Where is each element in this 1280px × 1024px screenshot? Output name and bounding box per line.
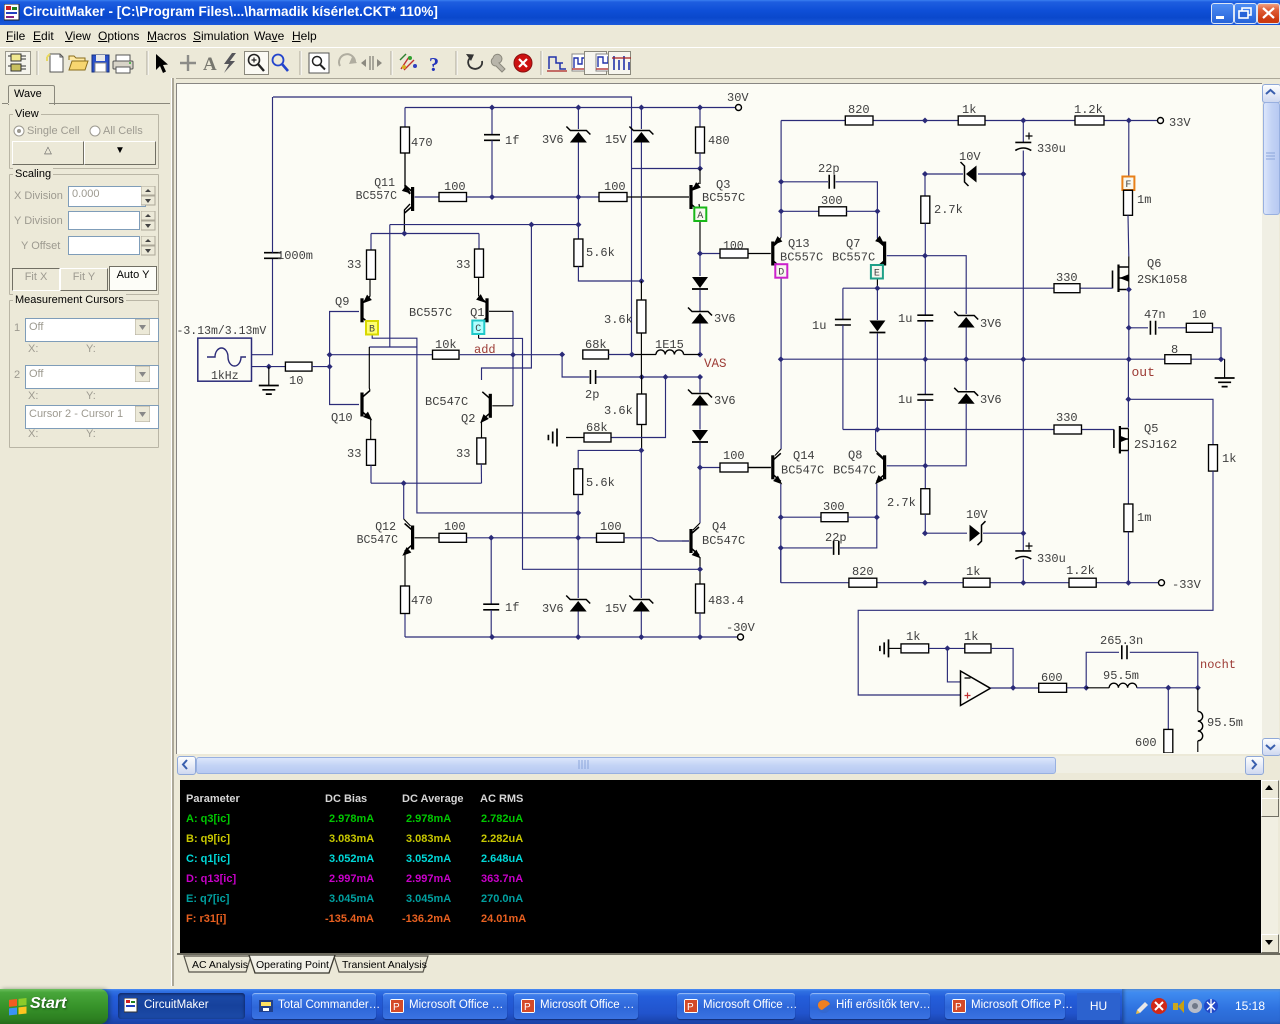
transistor Q8 BC547C bbox=[875, 430, 877, 451]
capacitor 1u upper-right bbox=[924, 256, 926, 315]
terminal -33V bbox=[1159, 580, 1165, 586]
wire Q10 emitter to 33 bbox=[370, 420, 372, 440]
diode lower in VAS string bbox=[692, 430, 708, 441]
wire +rail right y120.5 bbox=[781, 120, 1158, 122]
wire current mirror rail y233.5 bbox=[371, 233, 479, 235]
node Q12 collector tap bbox=[401, 480, 407, 486]
resistor 33 upper-right bbox=[475, 249, 484, 277]
svg-text:820: 820 bbox=[852, 565, 874, 579]
resistor 483.4 bbox=[696, 584, 705, 613]
wire Q3 emitter reference line y169 bbox=[632, 168, 701, 170]
svg-text:Q2: Q2 bbox=[461, 412, 475, 426]
wire source lower output bbox=[252, 366, 286, 368]
resistor 100 lower-right bbox=[597, 533, 625, 542]
zener 3V6 upper-left bbox=[577, 108, 579, 130]
wire Q14 emitter column x780.8 bbox=[780, 484, 782, 583]
wire 300 line upper y211.3 bbox=[781, 210, 819, 212]
wire 483.4 to rail bbox=[699, 613, 701, 637]
wire 10V line upper y174 bbox=[925, 173, 963, 175]
wire Q8 base bbox=[887, 404, 966, 466]
resistor 1k opamp-b bbox=[965, 644, 991, 653]
svg-text:30V: 30V bbox=[727, 91, 749, 105]
svg-text:330: 330 bbox=[1056, 271, 1078, 285]
node Q3 emitter / 480 junction bbox=[697, 166, 703, 172]
wire 5.6k-low to base node bbox=[577, 495, 579, 538]
svg-text:47n: 47n bbox=[1144, 308, 1166, 322]
resistor 480 bbox=[699, 108, 701, 128]
node Q7 emitter riser bbox=[874, 208, 880, 214]
svg-text:C: C bbox=[475, 324, 481, 335]
wire 100 to 1f node bbox=[467, 196, 579, 198]
inductor 95.5m vertical bbox=[1198, 711, 1203, 740]
svg-text:BC557C: BC557C bbox=[832, 251, 875, 265]
node 5.6k-low junction bbox=[638, 447, 644, 453]
resistor 330 lower bbox=[1054, 425, 1082, 434]
svg-text:AC Analysis: AC Analysis bbox=[192, 959, 248, 971]
wire 265n branch up bbox=[1086, 652, 1119, 688]
wire 1k-a to junction bbox=[929, 647, 965, 649]
svg-text:95.5m: 95.5m bbox=[1207, 716, 1243, 730]
wire Q2 base bbox=[492, 405, 513, 407]
node out-rail midbus bbox=[1020, 356, 1026, 362]
node diode/gate-low bbox=[874, 427, 880, 433]
probe A on Q3 collector bbox=[694, 208, 706, 222]
node Q6 source bbox=[1126, 287, 1132, 293]
resistor 600 series bbox=[1039, 683, 1067, 692]
wire Q9 emitter to 33 bbox=[369, 279, 371, 296]
collector bus left riser x389.8 bbox=[389, 225, 391, 347]
zener 3V6 right-upper bbox=[954, 312, 978, 320]
svg-text:10V: 10V bbox=[966, 508, 988, 522]
svg-text:1k: 1k bbox=[962, 103, 976, 117]
wire 22p line upper y181.8 bbox=[781, 181, 828, 183]
wire 47n line y327.8 bbox=[1129, 327, 1148, 329]
svg-text:470: 470 bbox=[411, 594, 433, 608]
svg-text:BC547C: BC547C bbox=[702, 534, 745, 548]
svg-text:P: P bbox=[687, 1002, 694, 1013]
svg-text:3V6: 3V6 bbox=[714, 394, 736, 408]
svg-text:1k: 1k bbox=[1222, 452, 1236, 466]
svg-text:1f: 1f bbox=[505, 134, 519, 148]
wire -30V bottom rail bbox=[405, 636, 738, 638]
wire mid bus x1023 down bbox=[1022, 174, 1024, 533]
svg-text:68k: 68k bbox=[585, 338, 607, 352]
svg-text:15V: 15V bbox=[605, 133, 627, 147]
node filter input bbox=[1083, 685, 1089, 691]
svg-text:Transient Analysis: Transient Analysis bbox=[342, 959, 427, 971]
svg-text:330u: 330u bbox=[1037, 142, 1066, 156]
svg-text:BC557C: BC557C bbox=[356, 190, 398, 203]
svg-text:F: F bbox=[1125, 180, 1131, 191]
node 47n tap bbox=[1126, 325, 1132, 331]
resistor 100 upper-left bbox=[439, 193, 467, 202]
node rail 330u bbox=[1020, 118, 1026, 124]
op-amp U1 bbox=[961, 671, 991, 706]
wire 300 to Q8 emitter riser bbox=[848, 516, 877, 518]
collector bus right riser x531.4 to Q2 collector bbox=[482, 225, 532, 380]
wire 10k to add node bbox=[459, 354, 562, 356]
capacitor 1f upper bbox=[491, 108, 493, 135]
svg-text:470: 470 bbox=[411, 136, 433, 150]
resistor 300 lower bbox=[821, 513, 848, 522]
probe E on Q7 collector bbox=[871, 265, 883, 279]
wire Q13 base feed y253.5 bbox=[700, 253, 720, 255]
svg-text:Operating Point: Operating Point bbox=[256, 959, 329, 971]
node rail-1f-low bbox=[489, 634, 495, 640]
probe D on Q13 collector bbox=[775, 264, 787, 278]
View group bbox=[9, 114, 159, 169]
node 95.5m-shunt bbox=[1195, 685, 1201, 691]
terminal -30V bbox=[738, 634, 744, 640]
resistor 1.2k upper bbox=[1075, 116, 1104, 125]
wire 100 to Q13 bar bbox=[748, 253, 771, 255]
Wave tab bbox=[8, 85, 55, 105]
resistor 470 upper bbox=[401, 127, 410, 153]
tabs bbox=[177, 955, 477, 975]
wire Q9/Q10 collector join y347 bbox=[369, 346, 417, 348]
node rail 1k bbox=[922, 118, 928, 124]
wire Q9 collector B-line y338 bbox=[372, 334, 578, 513]
wire ind to node bbox=[1086, 687, 1109, 689]
node Q7 base / 2.7k bbox=[922, 253, 928, 259]
wire 3.6k-low to 5.6k node bbox=[641, 425, 643, 451]
svg-text:Q10: Q10 bbox=[331, 411, 353, 425]
wire 600-shunt drop bbox=[1167, 688, 1169, 730]
node Q14 base feed bbox=[697, 465, 703, 471]
resistor 1k upper bbox=[958, 116, 985, 125]
resistor 1m lower bbox=[1124, 504, 1133, 532]
svg-text:P: P bbox=[524, 1002, 531, 1013]
svg-text:600: 600 bbox=[1135, 736, 1157, 750]
svg-text:BC557C: BC557C bbox=[780, 251, 823, 265]
Scaling group bbox=[9, 174, 159, 295]
resistor 100 upper-right bbox=[599, 193, 627, 202]
svg-text:300: 300 bbox=[823, 500, 845, 514]
resistor 820 lower bbox=[849, 578, 877, 587]
transistor Q11 BC557C bbox=[411, 187, 414, 211]
transistor Q5 2SJ162 mosfet bbox=[1113, 430, 1115, 449]
wire 33-LL bottom bbox=[370, 465, 372, 483]
svg-text:100: 100 bbox=[723, 449, 745, 463]
transistor Q10 BC547C bbox=[360, 393, 363, 417]
svg-text:100: 100 bbox=[444, 180, 466, 194]
svg-text:-3.13m/3.13mV: -3.13m/3.13mV bbox=[177, 325, 266, 338]
node 330u-low top bbox=[1020, 530, 1026, 536]
wire Q1 emitter to 33 bbox=[478, 277, 480, 296]
svg-text:1E15: 1E15 bbox=[655, 338, 684, 352]
wire Q2 emitter to 33 bbox=[481, 422, 483, 438]
resistor 100 lower-left bbox=[439, 533, 467, 542]
node Q8 emitter riser bbox=[874, 514, 880, 520]
node feedback bbox=[1125, 396, 1131, 402]
capacitor 1u left on gate lines bbox=[842, 288, 844, 319]
wire Q12 base y538 bbox=[415, 537, 439, 539]
transistor Q6 2SK1058 mosfet bbox=[1128, 257, 1130, 268]
zener 15V upper bbox=[640, 108, 642, 130]
resistor 820 upper bbox=[845, 116, 873, 125]
horizontal scrollbar bbox=[177, 756, 1262, 773]
svg-text:1f: 1f bbox=[505, 601, 519, 615]
vertical scrollbar bbox=[1262, 84, 1279, 753]
svg-text:22p: 22p bbox=[818, 162, 840, 176]
svg-text:B: B bbox=[369, 325, 375, 336]
svg-text:Q9: Q9 bbox=[335, 295, 349, 309]
svg-text:100: 100 bbox=[444, 520, 466, 534]
wire 1k down to opamp line bbox=[858, 471, 1213, 695]
svg-text:3.6k: 3.6k bbox=[604, 313, 633, 327]
wire y467.5 to 100 bbox=[700, 467, 720, 469]
schematic canvas bbox=[176, 83, 1262, 754]
wire base line to 100 upper-right bbox=[578, 196, 599, 198]
svg-text:VAS: VAS bbox=[704, 357, 727, 371]
resistor 10 zobel bbox=[1186, 323, 1212, 332]
wire input node riser bbox=[329, 355, 331, 367]
wire 1000m-cap top rail from x273 to x631 bbox=[273, 97, 632, 355]
node 22p tap upper bbox=[778, 179, 784, 185]
svg-text:Q1: Q1 bbox=[470, 306, 484, 320]
svg-text:10: 10 bbox=[1192, 308, 1206, 322]
resistor 100 to Q14 bbox=[720, 463, 748, 472]
svg-text:-33V: -33V bbox=[1172, 578, 1202, 592]
wire 10V line lower y533.2 bbox=[925, 532, 967, 534]
node 600-shunt bbox=[1165, 685, 1171, 691]
node output/feedback bbox=[1010, 685, 1016, 691]
svg-text:3V6: 3V6 bbox=[714, 312, 736, 326]
wire 600 to filter node bbox=[1067, 687, 1087, 689]
node rail-1f bbox=[489, 105, 495, 111]
window title bar bbox=[0, 0, 1280, 25]
node add/base tie bbox=[510, 352, 516, 358]
node VAS lower bbox=[697, 374, 703, 380]
capacitor 330u lower polarized bbox=[1022, 533, 1024, 550]
wire -rail right y582.7 bbox=[781, 582, 1159, 584]
node 3V6-low base-line bbox=[575, 535, 581, 541]
node 10V-low left bbox=[922, 530, 928, 536]
zener 3V6 lower-left bbox=[577, 538, 579, 598]
svg-text:1u: 1u bbox=[898, 393, 912, 407]
resistor 5.6k upper bbox=[577, 197, 579, 239]
wire feedback tap bbox=[1127, 359, 1129, 427]
wire 100 to Q3 base bbox=[627, 196, 689, 198]
inductor 95.5m horizontal bbox=[1109, 683, 1137, 688]
wire 1m to -rail bbox=[1127, 532, 1129, 583]
svg-text:5.6k: 5.6k bbox=[586, 476, 615, 490]
zener 3V6 lower-mid in VAS string bbox=[699, 377, 701, 393]
node rail-15V-low bbox=[638, 634, 644, 640]
ground sideways at 68k lower bbox=[566, 437, 584, 439]
transistor Q3 BC557C bbox=[699, 169, 701, 185]
svg-text:33: 33 bbox=[456, 258, 470, 272]
capacitor 22p lower bbox=[834, 541, 839, 555]
separator under black panel bbox=[177, 953, 1280, 955]
transistor Q2 BC547C bbox=[489, 394, 492, 418]
resistor 1k opamp-a bbox=[901, 644, 929, 653]
node 68k-left tap bbox=[559, 352, 565, 358]
node rail F bbox=[1126, 118, 1132, 124]
node -rail 330u bbox=[1020, 580, 1026, 586]
wire add line y354.5 bbox=[330, 354, 433, 356]
svg-text:1k: 1k bbox=[906, 630, 920, 644]
svg-text:1m: 1m bbox=[1137, 193, 1151, 207]
wire Q1 collector under C bbox=[479, 322, 480, 338]
svg-text:5.6k: 5.6k bbox=[586, 246, 615, 260]
svg-text:BC547C: BC547C bbox=[833, 464, 876, 478]
wire Q1/Q2 base riser x513 bbox=[512, 311, 514, 406]
menu bar bbox=[0, 25, 1280, 48]
svg-text:2SJ162: 2SJ162 bbox=[1134, 438, 1177, 452]
wire 100 to Q14 bar bbox=[748, 467, 771, 469]
svg-text:1.2k: 1.2k bbox=[1074, 103, 1103, 117]
svg-text:1k: 1k bbox=[966, 565, 980, 579]
transistor Q1 BC557C bbox=[485, 298, 488, 322]
node -rail 1k bbox=[922, 580, 928, 586]
svg-text:add: add bbox=[474, 343, 496, 357]
svg-text:820: 820 bbox=[848, 103, 870, 117]
node rail-483.4 bbox=[697, 634, 703, 640]
wire 95.5m-shunt drop bbox=[1197, 688, 1199, 712]
svg-text:BC557C: BC557C bbox=[702, 191, 745, 205]
wire source upper output to 1000m bbox=[252, 258, 273, 354]
black parameter panel bbox=[180, 780, 1261, 953]
node input lower bbox=[327, 364, 333, 370]
wire 68k-up right lead bbox=[609, 354, 632, 356]
ground at load bbox=[1224, 359, 1226, 377]
svg-text:483.4: 483.4 bbox=[708, 594, 744, 608]
wire Q6 gate line y288.2 bbox=[843, 287, 1054, 289]
ground below source bbox=[268, 367, 270, 385]
svg-text:-30V: -30V bbox=[726, 621, 756, 635]
svg-text:1m: 1m bbox=[1137, 511, 1151, 525]
node 15V/3.6k junction bbox=[638, 278, 644, 284]
wire Q9 base bbox=[330, 312, 359, 355]
wire 3.6k-up to 2p-line bbox=[640, 333, 642, 377]
svg-text:10: 10 bbox=[289, 374, 303, 388]
capacitor 1u lower-right bbox=[924, 359, 926, 394]
svg-text:2.7k: 2.7k bbox=[887, 496, 916, 510]
svg-text:out: out bbox=[1132, 365, 1155, 380]
svg-text:33: 33 bbox=[456, 447, 470, 461]
resistor 300 upper bbox=[819, 207, 847, 216]
svg-text:2.7k: 2.7k bbox=[934, 203, 963, 217]
node out-rail 3V6 bbox=[963, 356, 969, 362]
svg-text:330: 330 bbox=[1056, 411, 1078, 425]
capacitor 1000m bbox=[264, 253, 281, 259]
node -rail 1m bbox=[1125, 580, 1131, 586]
wire Q13 collector bbox=[775, 264, 781, 450]
node 1f-low top bbox=[488, 535, 494, 541]
wire F/1m column bbox=[1128, 121, 1130, 177]
capacitor 2p bbox=[590, 370, 595, 384]
svg-text:BC547C: BC547C bbox=[357, 534, 399, 547]
wire 2.7k to 10V line bbox=[924, 514, 926, 533]
wire below inductor bbox=[1197, 741, 1199, 752]
wire Q11 base line y197 bbox=[415, 196, 439, 198]
wire 22p line lower y547.9 bbox=[781, 547, 833, 549]
svg-text:E: E bbox=[874, 269, 880, 280]
transistor Q9 BC557C bbox=[360, 298, 363, 322]
node ground tap bbox=[266, 364, 272, 370]
wire gnd to 1k-a bbox=[889, 647, 902, 649]
wire 1m to Q6 drain bbox=[1127, 215, 1130, 256]
resistor 33 lower-left bbox=[367, 440, 376, 466]
svg-text:33V: 33V bbox=[1169, 116, 1191, 130]
wire Q3 collector bbox=[699, 204, 700, 254]
svg-text:BC547C: BC547C bbox=[425, 395, 468, 409]
svg-text:Q14: Q14 bbox=[793, 449, 815, 463]
resistor 8 load bbox=[1165, 355, 1191, 364]
resistor 5.6k lower bbox=[578, 450, 641, 468]
left panel bbox=[0, 78, 176, 986]
wire Q14 base stub bbox=[748, 467, 771, 469]
svg-text:Q5: Q5 bbox=[1144, 422, 1158, 436]
node rail-480 bbox=[697, 105, 703, 111]
node collector-bus upper tap bbox=[575, 222, 581, 228]
svg-text:300: 300 bbox=[821, 194, 843, 208]
svg-text:1kHz: 1kHz bbox=[211, 370, 239, 383]
node Q3 collector / 100 line bbox=[697, 251, 703, 257]
svg-text:1.2k: 1.2k bbox=[1066, 564, 1095, 578]
resistor 1.2k lower bbox=[1069, 578, 1096, 587]
svg-text:Q6: Q6 bbox=[1147, 257, 1161, 271]
wire out rail y359.2 bbox=[781, 358, 1225, 360]
svg-text:265.3n: 265.3n bbox=[1100, 634, 1143, 648]
inductor 1E15 bbox=[632, 354, 656, 356]
wire 47n to 10 bbox=[1158, 327, 1186, 329]
node 68k / lineA bbox=[629, 352, 635, 358]
wire Q6 source to out bbox=[1128, 290, 1130, 360]
svg-text:3V6: 3V6 bbox=[542, 133, 564, 147]
resistor 2.7k upper bbox=[924, 174, 926, 196]
wire Q9 collector to B bbox=[370, 324, 372, 328]
node out-rail Q6 bbox=[1126, 356, 1132, 362]
node collector-bus lower tap bbox=[575, 510, 581, 516]
node 3V6 base-line junction bbox=[575, 194, 581, 200]
svg-text:10V: 10V bbox=[959, 150, 981, 164]
wire Q10 collector bbox=[368, 347, 371, 391]
wire -rail corner to Q14E bbox=[780, 548, 782, 583]
wire 33 UR top lead bbox=[478, 234, 480, 250]
wire Q4 base stub bbox=[682, 540, 689, 542]
resistor 33 upper-left bbox=[367, 250, 376, 279]
wire Q12 emitter to 470 bbox=[404, 553, 406, 586]
node y569 collector-bus end bbox=[697, 566, 703, 572]
diode upper in VAS string bbox=[699, 254, 701, 277]
toolbar bbox=[0, 48, 1280, 79]
source sine box bbox=[198, 338, 252, 381]
svg-text:?: ? bbox=[429, 54, 439, 76]
node Q8 base 2.7k bbox=[922, 463, 928, 469]
wire 33 UL top lead bbox=[370, 234, 372, 251]
wire Q5 gate line y429.5 bbox=[843, 429, 1054, 431]
capacitor 265.3n bbox=[1122, 645, 1127, 659]
wire Q4 emitter to 483.4 bbox=[699, 557, 701, 584]
capacitor 1f lower bbox=[490, 538, 492, 604]
svg-text:2SK1058: 2SK1058 bbox=[1137, 273, 1187, 287]
zener 10V upper bbox=[961, 162, 969, 186]
wire inverting input drop bbox=[947, 648, 960, 682]
transistor Q14 BC547C bbox=[775, 449, 781, 456]
resistor 1k lower bbox=[963, 578, 990, 587]
svg-text:95.5m: 95.5m bbox=[1103, 669, 1139, 683]
wire 10 to base node bbox=[312, 366, 330, 368]
wire +30V top rail bbox=[405, 107, 736, 109]
black panel classic scrollbar bbox=[1261, 780, 1278, 953]
transistor Q13 BC557C bbox=[775, 238, 781, 244]
resistor 10 input bbox=[285, 362, 312, 371]
node rail-3V6 bbox=[575, 105, 581, 111]
wire emitter rail lower y483.2 bbox=[371, 482, 482, 484]
wire 470 to Q11 collector bbox=[405, 153, 410, 194]
